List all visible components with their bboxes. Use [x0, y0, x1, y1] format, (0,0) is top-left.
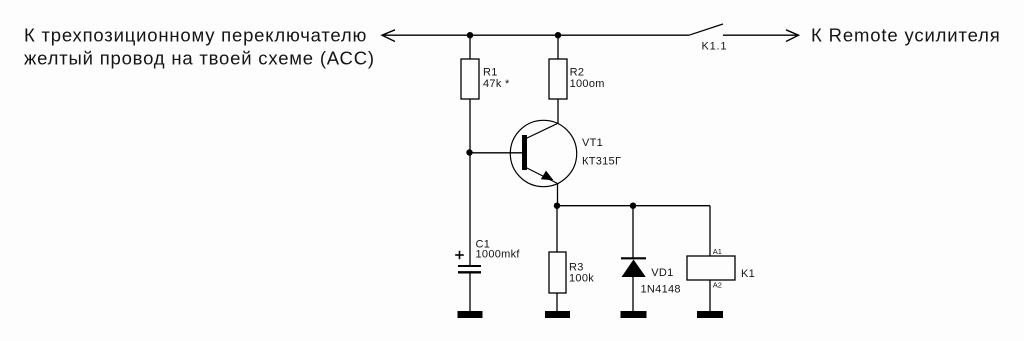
- wire relay to ground: [709, 280, 711, 311]
- svg-text:A1: A1: [713, 247, 722, 256]
- svg-text:100om: 100om: [570, 78, 605, 90]
- left arrow to ACC switch: [382, 30, 395, 42]
- relay coil K1: [687, 247, 755, 290]
- resistor R3: [549, 252, 594, 293]
- node junction diode: [630, 203, 636, 209]
- transistor VT1 KT315G: [510, 120, 621, 186]
- svg-text:К трехпозиционному переключате: К трехпозиционному переключателю: [24, 24, 367, 45]
- node junction on top bus (R1): [467, 32, 473, 38]
- svg-text:1N4148: 1N4148: [641, 283, 681, 295]
- wire top bus right segment: [723, 34, 798, 36]
- switch K1.1: [689, 24, 727, 52]
- svg-text:K1: K1: [741, 268, 755, 280]
- wire emitter node to R3: [556, 206, 558, 252]
- ground K1: [697, 311, 723, 318]
- resistor R1: [461, 59, 510, 99]
- svg-text:100k: 100k: [569, 273, 594, 285]
- svg-text:VT1: VT1: [582, 137, 603, 149]
- svg-text:1000mkf: 1000mkf: [476, 249, 521, 261]
- wire R2 bottom to collector: [557, 99, 559, 124]
- svg-text:R1: R1: [483, 66, 498, 78]
- svg-text:R2: R2: [570, 66, 585, 78]
- wire from top bus to R2: [557, 35, 559, 59]
- ground R3: [545, 311, 570, 318]
- diode VD1 1N4148: [621, 258, 681, 295]
- wire C1 bottom to ground: [469, 273, 471, 311]
- wire bus corner down to relay K1: [709, 206, 711, 256]
- svg-text:K1.1: K1.1: [702, 40, 728, 52]
- svg-text:VD1: VD1: [651, 267, 673, 279]
- right arrow to Remote: [786, 30, 799, 42]
- svg-text:КТ315Г: КТ315Г: [582, 156, 621, 168]
- resistor R2: [549, 59, 605, 99]
- ground VD1: [621, 311, 647, 318]
- svg-text:47k *: 47k *: [483, 78, 510, 90]
- svg-text:К Remote усилителя: К Remote усилителя: [811, 24, 1001, 45]
- capacitor C1: [455, 238, 520, 272]
- node junction emitter: [554, 203, 560, 209]
- svg-text:желтый провод на твоей схеме (: желтый провод на твоей схеме (АСС): [24, 47, 375, 68]
- ground C1: [458, 311, 483, 318]
- node junction on top bus (R2): [555, 32, 561, 38]
- wire R1 bottom down to C1 top: [469, 99, 471, 265]
- node label: К трехпозиционному переключателю (ACC wire): [24, 24, 375, 68]
- wire from top bus to R1: [469, 35, 471, 59]
- wire base node to transistor base: [470, 152, 523, 154]
- wire emitter down to node: [557, 184, 559, 207]
- wire top bus left segment: [383, 34, 690, 36]
- wire R3 to ground: [556, 293, 558, 311]
- wire diode node down to VD1: [632, 206, 634, 259]
- node junction base: [466, 149, 472, 155]
- wire emitter bus to relay: [557, 205, 710, 207]
- wire VD1 to ground: [632, 277, 634, 311]
- svg-text:A2: A2: [713, 281, 722, 290]
